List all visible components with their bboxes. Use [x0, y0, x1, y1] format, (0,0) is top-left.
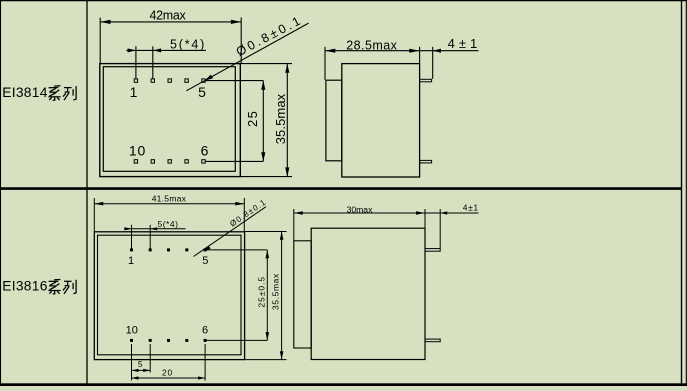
svg-text:10: 10: [126, 324, 138, 336]
svg-text:25±0.5: 25±0.5: [256, 276, 266, 308]
label hanzi 系列 (drawn strokes, row 2): [48, 280, 76, 294]
pin dots top row: [130, 248, 207, 251]
label hanzi 系列 (drawn strokes): [48, 86, 76, 100]
svg-text:4±1: 4±1: [448, 36, 482, 51]
front outer body rect: [94, 232, 244, 360]
svg-text:28.5max: 28.5max: [346, 38, 397, 52]
svg-text:1: 1: [128, 255, 134, 267]
dimension 25±0.5: [205, 250, 267, 341]
pin dots bottom row: [134, 160, 205, 163]
svg-text:4±1: 4±1: [463, 203, 479, 213]
table top border: [0, 0, 687, 2]
dimension 4±1 (row1): [420, 47, 479, 79]
svg-text:35.5max: 35.5max: [271, 273, 281, 310]
svg-text:5: 5: [198, 84, 206, 100]
svg-text:10: 10: [129, 142, 146, 158]
table right vertical line: [681, 0, 683, 384]
dimension 5 bottom: [132, 344, 151, 381]
side top pin row2: [425, 249, 440, 252]
table bottom border: [0, 383, 687, 386]
front outer body rect: [100, 64, 241, 177]
svg-text:25: 25: [245, 110, 260, 127]
side bottom pin: [420, 160, 432, 163]
side top pin: [420, 79, 432, 82]
pin dots bottom row: [130, 339, 207, 342]
dimension 42max: [100, 18, 241, 64]
svg-text:6: 6: [201, 142, 209, 158]
svg-text:5(*4): 5(*4): [170, 37, 206, 51]
front inner body rect: [103, 67, 235, 172]
dimension 35.5max row2: [245, 232, 287, 360]
svg-text:5(*4): 5(*4): [158, 219, 179, 229]
leader diameter 0.8 row2: [194, 207, 267, 257]
side body: [342, 64, 420, 177]
dimension 35.5max: [240, 64, 292, 177]
svg-text:42max: 42max: [149, 8, 186, 22]
dimension 41.5max: [94, 198, 244, 231]
dimension 5(*4) row2: [124, 225, 186, 250]
leader diameter 0.8: [186, 23, 308, 91]
dimension 25: [205, 81, 263, 162]
svg-text:5: 5: [138, 359, 143, 369]
svg-text:35.5max: 35.5max: [273, 93, 288, 144]
side flange row2: [294, 241, 311, 348]
svg-text:EI3814: EI3814: [2, 85, 48, 100]
svg-text:30max: 30max: [347, 205, 373, 215]
svg-text:EI3816: EI3816: [2, 279, 48, 294]
dimension 4±1 row2: [425, 209, 479, 248]
svg-text:41.5max: 41.5max: [152, 193, 187, 203]
pin dots top row: [134, 79, 205, 82]
table left border: [0, 0, 2, 386]
table row divider: [0, 187, 682, 190]
side body row2: [311, 228, 425, 359]
dimension 20 bottom: [132, 344, 206, 381]
front inner body rect: [98, 235, 242, 355]
dimension 28.5max: [325, 47, 420, 80]
dimension 5(*4): [127, 46, 206, 78]
dimension 30max: [294, 209, 425, 240]
table right edge line: [685, 0, 687, 386]
table column divider: [86, 0, 88, 384]
svg-text:20: 20: [162, 368, 173, 378]
svg-text:6: 6: [202, 324, 208, 336]
svg-text:1: 1: [130, 84, 138, 100]
side flange: [326, 80, 342, 161]
svg-text:5: 5: [202, 255, 208, 267]
side bottom pin row2: [425, 339, 440, 342]
